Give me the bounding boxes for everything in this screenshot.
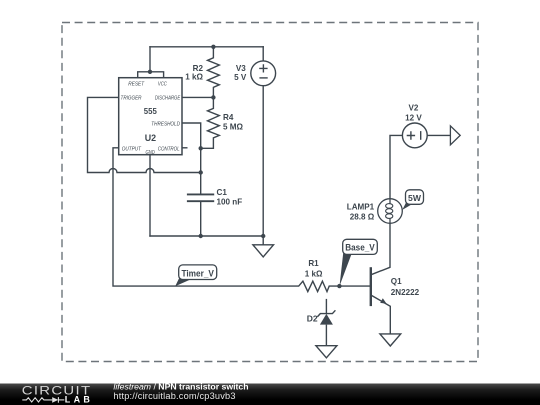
svg-text:28.8 Ω: 28.8 Ω [350,212,375,221]
svg-text:OUTPUT: OUTPUT [122,146,142,152]
svg-text:100 nF: 100 nF [217,197,243,206]
resistor R4 [201,97,220,148]
footer bar [0,384,540,405]
zener diode D2 triangle [320,314,333,325]
wire V3 top stub [262,47,264,61]
wire V2 right to flag [427,134,450,136]
label R2 value [185,64,203,82]
svg-text:12 V: 12 V [405,113,422,122]
logo diode triangle [52,397,58,403]
voltage source V3 [251,61,276,86]
ground (emitter) [380,334,401,346]
wire lamp to collector [389,223,391,267]
lamp LAMP1 [378,199,403,224]
svg-text:U2: U2 [145,133,156,143]
logo resistor-diode symbol [22,397,64,403]
wire top rail [150,46,263,48]
transistor Q1 emitter arrowhead [380,298,386,303]
svg-text:555: 555 [144,107,158,116]
node Base_V flag [340,239,378,286]
voltage source V2 [402,123,427,148]
node Timer_V flag [175,265,217,286]
svg-text:THRESHOLD: THRESHOLD [151,121,180,127]
svg-text:LAMP1: LAMP1 [347,203,375,212]
wire V3 bottom [262,86,264,236]
svg-text:5 V: 5 V [234,73,247,82]
wire control stub [182,147,187,149]
label R1 value [305,259,323,278]
label C1 value [217,188,243,207]
svg-text:1 kΩ: 1 kΩ [305,269,323,278]
svg-text:1 kΩ: 1 kΩ [185,73,203,82]
svg-text:Q1: Q1 [391,277,402,286]
svg-text:TRIGGER: TRIGGER [121,95,143,101]
wire threshold [182,123,201,148]
wire output / Timer_V net with resistor R1 [113,148,371,292]
svg-text:R1: R1 [308,259,319,268]
transistor Q2 / Q1 NPN [371,267,391,334]
svg-text:CONTROL: CONTROL [158,146,180,152]
svg-text:Timer_V: Timer_V [181,268,214,278]
label LAMP1 value [347,203,375,222]
wire C1 to ground rail [200,202,202,236]
wire trigger with hops [88,97,201,172]
output flag arrow [450,126,460,145]
label V3 value [234,64,247,82]
svg-text:DISCHARGE: DISCHARGE [155,95,180,101]
svg-text:RESET: RESET [128,82,145,88]
zener diode D2 [317,299,335,346]
wire ground rail [150,235,263,237]
wire V2 left to lamp [390,135,402,198]
label V2 value [405,103,422,122]
svg-text:GND: GND [145,150,154,156]
svg-text:2N2222: 2N2222 [391,288,420,297]
svg-text:V2: V2 [408,103,418,112]
svg-text:R4: R4 [223,113,234,122]
ground (V3 rail) [253,236,274,257]
svg-text:Base_V: Base_V [345,243,375,253]
resistor R2 [208,47,220,98]
svg-text:lifestream / NPN transistor sw: lifestream / NPN transistor switch [113,382,248,392]
junction dots [148,45,342,289]
wire node to C1 [200,148,202,193]
svg-text:VCC: VCC [158,82,167,88]
label 5W flag [402,190,423,210]
op-amp-ic 555 U2 box [119,78,182,155]
ground (D2) [316,346,337,358]
label R4 value [223,113,243,132]
label Q1 value [391,277,420,297]
wire VCC/RESET riser [149,47,151,72]
svg-text:5 MΩ: 5 MΩ [223,123,243,132]
schematic dashed boundary [62,23,478,362]
wire reset-vcc bracket [138,72,164,78]
svg-text:C1: C1 [217,188,228,197]
svg-text:D2: D2 [307,314,318,324]
wire 555 gnd [149,155,151,236]
wire discharge [182,96,213,98]
svg-text:5W: 5W [408,193,422,203]
capacitor C1 [187,194,214,201]
svg-text:http://circuitlab.com/cp3uvb3: http://circuitlab.com/cp3uvb3 [113,391,235,401]
svg-text:LAB: LAB [65,394,93,404]
svg-text:V3: V3 [236,64,246,73]
